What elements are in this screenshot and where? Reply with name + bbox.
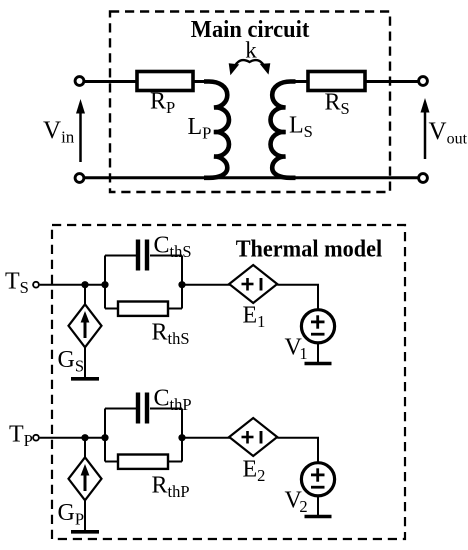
- wire TP to node: [40, 437, 105, 439]
- terminal TP: [33, 435, 39, 441]
- ground V1: [305, 362, 332, 366]
- RC loop wires S: [105, 256, 182, 309]
- terminal bottom-left: [75, 174, 84, 183]
- wire node P1 to GP: [84, 438, 86, 458]
- wire GP to ground: [84, 500, 86, 532]
- ground GS: [71, 377, 99, 381]
- wire top-left to RP: [85, 80, 137, 83]
- junction node S2: [101, 281, 108, 288]
- current source GS: [69, 304, 102, 347]
- ground V2: [305, 515, 332, 519]
- resistor RthP: [118, 455, 168, 469]
- voltage source V2: [301, 463, 334, 496]
- terminal bottom-right: [419, 174, 428, 183]
- terminal top-left: [75, 77, 84, 86]
- controlled source E1: [229, 265, 277, 303]
- wire V2 to ground: [317, 496, 319, 517]
- resistor RS: [308, 72, 365, 91]
- terminal TS: [33, 282, 39, 288]
- wire GS to ground: [84, 347, 86, 379]
- junction node S3: [178, 281, 185, 288]
- wire node P3 to E2: [182, 437, 231, 439]
- thermal model dashed box: [52, 225, 405, 539]
- svg-text:Thermal model: Thermal model: [236, 236, 383, 263]
- arrow Vin: [76, 99, 85, 162]
- current source GP: [69, 457, 102, 500]
- voltage source V1: [301, 310, 334, 343]
- coupling arrow k: [229, 60, 271, 75]
- wire E2 to V2: [277, 438, 318, 463]
- resistor RthS: [118, 302, 168, 316]
- junction node P2: [101, 434, 108, 441]
- wire node S1 to GS: [84, 285, 86, 305]
- ground GP: [71, 530, 99, 534]
- junction node S1: [81, 281, 88, 288]
- capacitor CthS: [138, 240, 147, 271]
- wire TS to node: [40, 284, 105, 286]
- inductor LS: [271, 82, 296, 178]
- svg-text:k: k: [245, 38, 257, 63]
- wire RS to terminal: [365, 80, 418, 83]
- wire E1 to V1: [277, 285, 318, 310]
- RC loop wires P: [105, 409, 182, 462]
- junction node P3: [178, 434, 185, 441]
- resistor RP: [137, 72, 193, 91]
- main circuit dashed box: [110, 12, 390, 193]
- inductor LP: [204, 82, 229, 178]
- terminal top-right: [419, 77, 428, 86]
- capacitor CthP: [138, 393, 147, 424]
- wire node S3 to E1: [182, 284, 231, 286]
- junction node P1: [81, 434, 88, 441]
- bottom wire: [85, 176, 418, 179]
- wire V1 to ground: [317, 343, 319, 364]
- wire RP to LP: [193, 80, 208, 83]
- wire LS to RS: [291, 80, 308, 83]
- controlled source E2: [229, 418, 277, 456]
- arrow Vout: [421, 98, 430, 159]
